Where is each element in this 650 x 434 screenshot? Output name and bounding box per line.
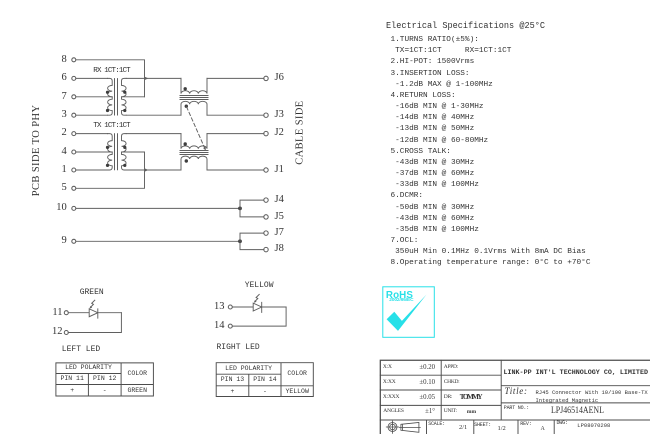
terminal label J8	[275, 244, 284, 255]
title block DWG label	[557, 421, 568, 426]
LED D2 yellow diode	[232, 302, 286, 312]
wire D2 loop to pin 14	[232, 307, 286, 326]
polarity dot T1 primary lower	[106, 109, 109, 112]
title block REV label	[520, 422, 531, 427]
caption LEFT LED	[62, 346, 100, 354]
RoHS logo subtext	[389, 299, 413, 304]
RoHS checkmark	[387, 295, 427, 331]
right LED polarity table grid	[216, 363, 313, 397]
terminal label J4	[275, 195, 284, 206]
left table cell GREEN	[121, 388, 153, 395]
polarity dot T1 secondary lower	[123, 109, 126, 112]
wire choke L2 to J1	[207, 169, 264, 171]
polarity dot L2 bottom	[185, 159, 188, 162]
left table cell COLOR	[121, 371, 153, 378]
title block PART NO label	[504, 406, 529, 411]
wire pin9 to J7 J8	[76, 240, 240, 242]
terminal J1	[264, 168, 268, 172]
title block X:X	[383, 365, 392, 371]
pin 4 terminal	[72, 150, 76, 154]
polarity dot L1 top	[184, 87, 187, 90]
terminal J2	[264, 131, 268, 135]
wire choke L1 to J6	[207, 77, 264, 79]
wire T1 secondary bottom to choke L1	[126, 114, 181, 116]
title block title line2	[536, 398, 599, 404]
title block UNIT	[444, 409, 457, 415]
spec title	[386, 21, 545, 30]
right table cell plus	[216, 389, 249, 396]
polarity dot T1 secondary upper	[123, 91, 126, 94]
title block CHKD	[444, 380, 460, 386]
wire branch to J7 and J8	[240, 233, 264, 250]
pin number label 8	[40, 55, 67, 66]
pin number label 11	[35, 308, 63, 319]
common-mode choke L2 TX top winding	[181, 134, 207, 149]
left table cell plus	[56, 388, 89, 395]
junction node pin9 branch	[238, 239, 242, 243]
wire pin3 to RX primary bottom	[76, 114, 108, 116]
pin 9 terminal	[72, 239, 76, 243]
RoHS logo box	[383, 287, 435, 338]
pin 11 terminal	[64, 311, 68, 315]
terminal J3	[264, 113, 268, 117]
pin 12 terminal	[64, 331, 68, 335]
terminal J6	[264, 76, 268, 80]
title block X:X tolerance	[405, 365, 435, 372]
transformer T2 TX core	[115, 134, 118, 170]
title block sheet value	[498, 426, 506, 433]
title block SHEET label	[474, 423, 491, 428]
crossover dashed line	[187, 107, 205, 148]
terminal label J6	[275, 73, 284, 84]
pin number label 14	[197, 321, 225, 332]
LED label GREEN	[80, 289, 104, 297]
wire T2 secondary bottom to choke L2	[126, 169, 181, 171]
transformer T1 RX core	[115, 79, 118, 115]
pin 7 terminal	[72, 95, 76, 99]
wire pin2 to TX primary top	[76, 133, 108, 135]
common-mode choke L1 RX top winding	[181, 78, 207, 93]
right table cell LED POLARITY	[216, 366, 281, 373]
left table cell LED POLARITY	[56, 365, 121, 372]
wire pin6 to RX primary top	[76, 77, 108, 79]
LED label YELLOW	[245, 282, 274, 290]
pin number label 12	[35, 327, 63, 338]
title block dwg number	[577, 423, 610, 429]
pin number label 13	[197, 302, 225, 313]
pin number label 4	[40, 147, 67, 158]
polarity dot T1 primary upper	[106, 91, 109, 94]
title block DR	[444, 395, 452, 401]
wire choke L2 to J2	[207, 133, 264, 135]
left table cell minus	[88, 388, 121, 395]
pin 10 terminal	[72, 206, 76, 210]
title block ANGLES	[383, 409, 404, 415]
title block part number	[551, 406, 604, 416]
common-mode choke L2 TX bottom winding	[181, 156, 207, 170]
pin number label 3	[40, 110, 67, 121]
transformer label RX	[93, 68, 130, 76]
right table cell PIN 14	[249, 377, 281, 384]
right table cell YELLOW	[281, 389, 313, 396]
RoHS logo text	[386, 291, 413, 301]
title block unit value mm	[467, 410, 476, 416]
caption RIGHT LED	[217, 344, 260, 352]
pin number label 10	[40, 203, 67, 214]
title block X:XXX tolerance	[405, 395, 435, 402]
polarity dot T2 primary lower	[106, 164, 109, 167]
title block border and grid	[380, 360, 650, 434]
transformer T2 TX secondary winding	[122, 134, 127, 170]
spec body text	[391, 35, 591, 270]
third angle projection symbol	[386, 421, 420, 433]
LED D1 light arrow	[90, 300, 95, 308]
right table cell minus	[249, 389, 281, 396]
wire T2 secondary center tap	[122, 151, 145, 153]
pin number label 9	[40, 236, 67, 247]
terminal label J3	[275, 110, 284, 121]
polarity dot L1 bottom	[185, 105, 188, 108]
left LED polarity table grid	[56, 363, 153, 396]
pin number label 6	[40, 73, 67, 84]
right table cell PIN 13	[216, 377, 249, 384]
title block title line1	[536, 390, 648, 396]
pin 3 terminal	[72, 113, 76, 117]
terminal J7	[264, 231, 268, 235]
terminal J5	[264, 215, 268, 219]
transformer T1 RX secondary winding	[122, 78, 127, 115]
title block X:XX	[383, 380, 396, 386]
pin number label 1	[40, 165, 67, 176]
polarity dot T2 secondary lower	[123, 164, 126, 167]
transformer label TX	[93, 123, 130, 131]
title block X:XX tolerance	[405, 380, 435, 387]
title block company name	[504, 370, 648, 377]
title block ANGLES tolerance	[405, 409, 435, 416]
polarity dot T2 secondary upper	[123, 146, 126, 149]
transformer T1 RX primary winding	[108, 78, 113, 115]
LED D1 green diode	[68, 309, 121, 318]
pin number label 2	[40, 128, 67, 139]
left table cell PIN 11	[56, 376, 89, 383]
pin 5 terminal	[72, 186, 76, 190]
wire pin7 to RX primary center tap	[76, 96, 112, 98]
side label PCB SIDE TO PHY	[32, 108, 43, 196]
pin 2 terminal	[72, 132, 76, 136]
crossover arrowhead	[203, 147, 206, 151]
wire pin1 to TX primary bottom	[76, 169, 108, 171]
wire T1 secondary top to choke L1	[126, 77, 181, 79]
wire pin8 to RX secondary center tap	[76, 60, 145, 97]
left table cell PIN 12	[88, 376, 121, 383]
terminal label J2	[275, 128, 284, 139]
junction node pin10 branch	[238, 207, 242, 211]
wire pin5 to TX secondary center tap	[76, 152, 145, 188]
pin 6 terminal	[72, 76, 76, 80]
junction arrow at TX secondary bottom crossing	[145, 169, 148, 172]
title block SCALE label	[428, 422, 445, 427]
wire D1 loop to pin 12	[68, 313, 121, 333]
wire branch to J4 and J5	[240, 200, 264, 217]
transformer T2 TX primary winding	[108, 134, 113, 170]
title block signature TOMMY	[460, 394, 481, 401]
pin 14 terminal	[228, 324, 232, 328]
common-mode choke L1 RX bottom winding	[181, 101, 207, 115]
pin number label 7	[40, 92, 67, 103]
wire pin10 to J4 J5	[76, 207, 240, 209]
terminal label J1	[275, 165, 284, 176]
terminal label J7	[275, 228, 284, 239]
wire pin4 to TX primary center tap	[76, 151, 112, 153]
common-mode choke L1 core	[180, 96, 208, 100]
right table cell COLOR	[281, 371, 313, 378]
junction arrow at RX secondary top crossing	[145, 77, 148, 80]
LED D2 light arrow	[254, 294, 259, 302]
pin number label 5	[40, 183, 67, 194]
title block rev value	[541, 426, 545, 432]
terminal J8	[264, 247, 268, 251]
polarity dot L2 top	[184, 142, 187, 145]
title block Title label	[505, 387, 528, 396]
title block APPD	[444, 365, 458, 371]
wire T1 secondary center tap	[122, 96, 145, 98]
pin 8 terminal	[72, 58, 76, 62]
wire T2 secondary top to choke L2	[126, 133, 181, 135]
side label CABLE SIDE	[296, 104, 307, 165]
common-mode choke L2 core	[180, 151, 208, 155]
terminal J4	[264, 198, 268, 202]
wire choke L1 to J3	[207, 114, 264, 116]
pin 1 terminal	[72, 168, 76, 172]
title block scale value	[459, 425, 467, 432]
title block X:XXX	[383, 395, 399, 401]
polarity dot T2 primary upper	[106, 146, 109, 149]
pin 13 terminal	[228, 305, 232, 309]
terminal label J5	[275, 212, 284, 223]
